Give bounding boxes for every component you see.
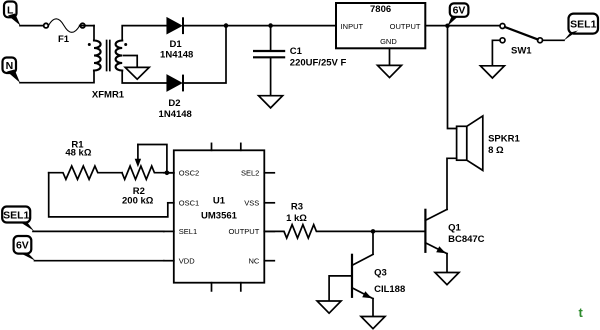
- svg-text:INPUT: INPUT: [341, 22, 364, 31]
- svg-text:6V: 6V: [16, 239, 29, 251]
- regulator 7806: [336, 3, 425, 48]
- svg-text:L: L: [7, 4, 14, 16]
- wire L to fuse: [20, 25, 43, 27]
- node junction R2/OSC2: [165, 171, 170, 176]
- ground (SW1): [480, 66, 504, 78]
- svg-text:GND: GND: [380, 37, 397, 46]
- wire R1 loop to OSC1: [49, 173, 168, 217]
- node junction R3/Q1/Q3: [371, 229, 376, 234]
- wire Q3 emitter to ground: [372, 299, 374, 317]
- svg-text:OSC2: OSC2: [179, 169, 199, 178]
- wire fuse to transformer: [93, 26, 95, 41]
- wire Q1 emitter to ground: [446, 254, 448, 273]
- fuse F1: [44, 19, 94, 45]
- ground (C1): [259, 96, 283, 108]
- diode D2: [159, 76, 192, 120]
- svg-text:48 kΩ: 48 kΩ: [65, 148, 91, 159]
- ground (7806): [378, 65, 402, 77]
- wire C1 to ground: [270, 58, 272, 95]
- wire to C1: [270, 26, 272, 50]
- svg-text:7806: 7806: [370, 4, 391, 15]
- ground (Q1): [435, 273, 459, 285]
- svg-text:Q3: Q3: [374, 267, 387, 278]
- wire 6V to VDD: [35, 260, 164, 262]
- wire D1 to junction: [183, 25, 336, 27]
- capacitor C1: [254, 46, 346, 68]
- svg-text:U1: U1: [213, 196, 226, 207]
- svg-text:SEL1: SEL1: [570, 19, 596, 31]
- terminal 6V (left): [14, 236, 36, 261]
- svg-text:6V: 6V: [453, 5, 466, 17]
- svg-text:XFMR1: XFMR1: [92, 90, 125, 101]
- wire 7806 output to 6V node: [425, 25, 500, 27]
- svg-text:D2: D2: [168, 98, 180, 109]
- svg-text:OSC1: OSC1: [179, 199, 199, 208]
- svg-text:R3: R3: [291, 201, 303, 212]
- wire 7806 gnd pin: [389, 48, 391, 65]
- node junction D1/D2: [224, 23, 229, 28]
- wire speaker to Q1 collector: [447, 158, 457, 209]
- svg-text:t: t: [579, 305, 584, 320]
- wire Q3 base to ground: [329, 276, 352, 301]
- terminal N: [3, 58, 21, 83]
- svg-text:D1: D1: [170, 39, 183, 50]
- svg-text:1N4148: 1N4148: [159, 109, 192, 120]
- wire transformer bottom to D2: [122, 71, 167, 84]
- svg-text:SEL2: SEL2: [241, 169, 259, 178]
- ground (transformer tap): [125, 67, 149, 79]
- wire SW1 to SEL1: [543, 39, 564, 41]
- svg-text:SEL1: SEL1: [3, 210, 29, 222]
- terminal L: [4, 2, 21, 26]
- svg-text:SW1: SW1: [511, 45, 532, 56]
- svg-text:1N4148: 1N4148: [160, 49, 193, 60]
- svg-text:CIL188: CIL188: [374, 284, 405, 295]
- svg-text:220UF/25V F: 220UF/25V F: [290, 57, 347, 68]
- IC U1 UM3561: [164, 143, 274, 291]
- svg-text:SEL1: SEL1: [179, 227, 197, 236]
- svg-text:8 Ω: 8 Ω: [488, 145, 504, 156]
- svg-text:C1: C1: [290, 46, 303, 57]
- potentiometer R2: [122, 145, 167, 207]
- ground (Q3 base): [317, 301, 341, 313]
- wire 6V node down to speaker: [448, 26, 457, 129]
- wire R2 junction to OSC2: [167, 172, 174, 174]
- svg-text:BC847C: BC847C: [448, 234, 485, 245]
- terminal SEL1 (left): [2, 207, 34, 232]
- wire junction to Q1 base: [373, 230, 425, 232]
- resistor R1: [49, 139, 122, 179]
- terminal 6V (top): [448, 3, 469, 26]
- svg-text:VDD: VDD: [179, 256, 195, 265]
- wire SW1 pole to ground: [492, 40, 500, 66]
- svg-text:Q1: Q1: [448, 223, 461, 234]
- svg-text:200 kΩ: 200 kΩ: [122, 195, 154, 206]
- transformer XFMR1: [88, 41, 127, 101]
- wire N to transformer: [20, 71, 94, 83]
- svg-text:NC: NC: [248, 256, 259, 265]
- wire transformer top to D1: [122, 26, 167, 41]
- terminal SEL1 (top right): [564, 14, 599, 41]
- svg-text:N: N: [6, 60, 14, 72]
- transistor Q1: [425, 209, 484, 253]
- transistor Q3: [352, 254, 405, 298]
- node 6V junction: [445, 24, 450, 29]
- svg-text:VSS: VSS: [244, 199, 259, 208]
- svg-text:OUTPUT: OUTPUT: [390, 22, 421, 31]
- wire transformer center tap: [124, 56, 138, 68]
- wire SEL1 to U1: [33, 230, 164, 232]
- speaker SPKR1: [457, 116, 521, 170]
- diode D1: [160, 18, 193, 60]
- svg-text:F1: F1: [58, 34, 70, 45]
- svg-text:1 kΩ: 1 kΩ: [286, 213, 307, 224]
- ground (Q3 emitter): [361, 317, 385, 329]
- node junction C1: [268, 23, 273, 28]
- resistor R3: [264, 201, 373, 238]
- svg-text:UM3561: UM3561: [201, 211, 238, 222]
- svg-text:OUTPUT: OUTPUT: [228, 227, 259, 236]
- svg-text:SPKR1: SPKR1: [488, 133, 520, 144]
- switch SW1: [500, 24, 543, 57]
- wire junction down to Q3 collector: [372, 231, 374, 253]
- wire D2 to junction: [183, 26, 226, 83]
